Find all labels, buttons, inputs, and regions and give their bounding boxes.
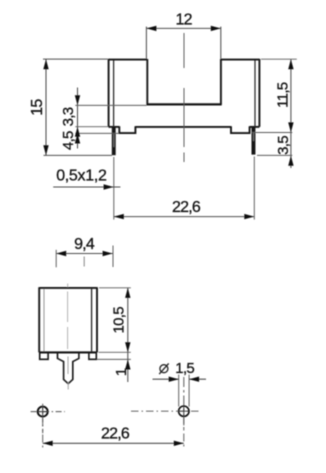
svg-text:22,6: 22,6 bbox=[101, 425, 130, 442]
svg-text:3,3: 3,3 bbox=[60, 107, 77, 126]
svg-text:15: 15 bbox=[29, 99, 46, 116]
svg-text:3,5: 3,5 bbox=[275, 136, 292, 155]
svg-text:1,5: 1,5 bbox=[175, 360, 194, 377]
svg-text:4,5: 4,5 bbox=[60, 131, 77, 150]
svg-text:12: 12 bbox=[175, 11, 192, 28]
svg-text:1: 1 bbox=[113, 368, 130, 376]
svg-text:22,6: 22,6 bbox=[172, 199, 201, 216]
svg-text:11,5: 11,5 bbox=[274, 82, 291, 108]
svg-text:9,4: 9,4 bbox=[74, 236, 95, 253]
svg-text:10,5: 10,5 bbox=[110, 307, 127, 334]
svg-text:0,5x1,2: 0,5x1,2 bbox=[56, 167, 107, 184]
